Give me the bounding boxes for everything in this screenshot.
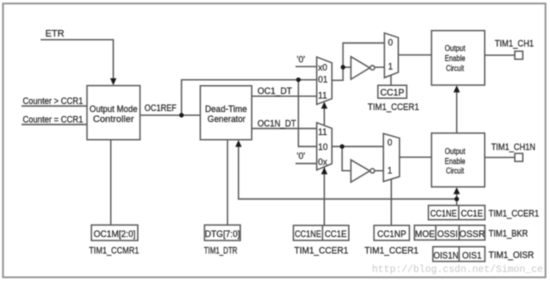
junction dot on 01 wire: [296, 78, 301, 83]
wire OC1REF: [140, 114, 200, 116]
svg-text:TIM1_CCER1: TIM1_CCER1: [365, 246, 419, 257]
wire CC1P mux output to OEC: [398, 54, 431, 56]
register CC1NE CC1E left box: [293, 225, 348, 240]
pin TIM1_CH1: [515, 51, 523, 59]
arrowhead select into lower mux: [321, 167, 327, 174]
wire Counter > CCR1: [22, 105, 88, 107]
arrowhead into top OEC: [453, 85, 460, 92]
arrowhead select into upper mux: [321, 102, 327, 109]
wire '0' stub lower mux: [296, 163, 317, 165]
svg-text:ETR: ETR: [45, 29, 64, 40]
svg-text:CC1P: CC1P: [380, 88, 404, 99]
wire DTG stem down to DTG register: [227, 140, 229, 225]
svg-text:OIS1: OIS1: [462, 250, 482, 261]
pin TIM1_CH1N: [515, 153, 523, 161]
wire select line CC1NE/CC1E to both muxes: [323, 104, 325, 225]
junction dot top NOT tap: [341, 65, 346, 70]
dead-time generator box: [200, 86, 251, 140]
svg-text:Enable: Enable: [445, 156, 466, 166]
register DTG box: [205, 225, 241, 241]
wire CC1NP mux output to bottom OEC: [400, 156, 432, 158]
wire ETR horizontal and vertical into OMC: [41, 40, 114, 81]
svg-text:OIS1N: OIS1N: [434, 250, 459, 261]
svg-text:'0': '0': [297, 151, 306, 161]
svg-text:CC1E: CC1E: [325, 229, 347, 240]
svg-text:1: 1: [388, 62, 393, 72]
svg-text:TIM1_BKR: TIM1_BKR: [489, 229, 529, 240]
arrowhead into bottom OEC: [453, 187, 460, 194]
wire bottom OEC select stem: [456, 193, 458, 206]
register CC1NP box: [374, 225, 409, 240]
svg-text:CC1E: CC1E: [461, 209, 483, 220]
svg-text:11: 11: [318, 127, 327, 137]
mux M1 (upper 3-input): [317, 57, 332, 104]
arrowhead ETR into OMC: [110, 78, 116, 85]
output mode controller box: [87, 86, 140, 140]
svg-text:CC1NP: CC1NP: [377, 229, 406, 240]
register MOE OSSI OSSR box: [414, 225, 485, 240]
svg-text:0: 0: [387, 137, 392, 147]
svg-text:0: 0: [388, 38, 393, 48]
svg-text:Controller: Controller: [93, 114, 134, 125]
svg-text:Enable: Enable: [445, 53, 466, 63]
svg-text:01: 01: [318, 74, 328, 84]
svg-text:TIM1_CCER1: TIM1_CCER1: [294, 246, 348, 257]
wire OMC stem down to OC1M: [110, 140, 112, 225]
svg-text:OSSI: OSSI: [437, 229, 458, 240]
junction dot on MOE line: [454, 197, 459, 202]
wire OC1N_DT: [252, 128, 317, 130]
svg-text:Circuit: Circuit: [446, 63, 465, 73]
svg-text:Circuit: Circuit: [446, 166, 465, 176]
wire lower mux output to 0 input of CC1NP mux: [332, 146, 384, 148]
wire tap to top NOT gate: [343, 66, 351, 68]
mux M2 (lower 3-input): [317, 123, 332, 170]
svg-text:TIM1_CCER1: TIM1_CCER1: [489, 209, 539, 220]
wire top NOT output to 1 input: [375, 66, 385, 68]
svg-text:TIM1_OISR: TIM1_OISR: [489, 250, 535, 261]
svg-text:OSSR: OSSR: [459, 229, 485, 240]
svg-text:DTG[7:0]: DTG[7:0]: [205, 229, 240, 240]
wire OEC select between OEC boxes: [456, 91, 458, 133]
wire OC1REF riser to 01 input: [182, 80, 317, 115]
wire branch from 01 down to 10 input: [298, 80, 316, 147]
svg-text:Counter > CCR1: Counter > CCR1: [23, 96, 83, 107]
svg-text:TIM1_CCER1: TIM1_CCER1: [368, 102, 419, 113]
wire CC1P stem: [390, 76, 392, 86]
wire upper mux output riser to 0 input of CC1P mux: [332, 43, 385, 80]
register OIS1N OIS1 box: [433, 247, 485, 262]
junction dot OC1REF: [179, 113, 184, 118]
svg-text:Output: Output: [445, 146, 466, 156]
junction dot bottom NOT tap: [340, 144, 345, 149]
wire long horizontal MOE line: [239, 145, 457, 199]
svg-text:http://blog.csdn.net/Simon_ce: http://blog.csdn.net/Simon_ce: [372, 264, 543, 276]
not gate bottom: [351, 160, 370, 182]
svg-text:OC1N_DT: OC1N_DT: [258, 119, 297, 130]
svg-text:10: 10: [318, 142, 328, 152]
wire OEC to TIM1_CH1 pin: [485, 54, 515, 56]
not gate top: [351, 57, 370, 80]
register CC1NE CC1E right box: [428, 205, 485, 219]
svg-text:MOE: MOE: [415, 229, 435, 240]
wire '0' stub upper mux: [296, 66, 317, 68]
register OC1M box: [91, 225, 137, 241]
svg-text:TIM1_CH1N: TIM1_CH1N: [491, 142, 535, 153]
svg-text:TIM1_DTR: TIM1_DTR: [204, 246, 237, 257]
output enable circuit bottom box: [432, 133, 485, 187]
output enable circuit top box: [432, 31, 485, 86]
svg-text:1: 1: [387, 165, 392, 175]
svg-text:CC1NE: CC1NE: [295, 229, 322, 240]
svg-text:TIM1_CCMR1: TIM1_CCMR1: [89, 246, 139, 257]
wire bottom OEC to TIM1_CH1N pin: [485, 156, 515, 158]
svg-text:CC1NE: CC1NE: [430, 209, 457, 220]
svg-text:OC1_DT: OC1_DT: [258, 86, 293, 97]
svg-text:OC1REF: OC1REF: [145, 103, 177, 114]
svg-text:Counter = CCR1: Counter = CCR1: [23, 114, 83, 125]
wire tap down to bottom NOT gate: [342, 147, 351, 171]
svg-text:0x: 0x: [318, 157, 328, 167]
svg-text:Generator: Generator: [208, 114, 246, 125]
svg-text:11: 11: [318, 91, 327, 101]
wire OC1_DT: [252, 95, 317, 97]
wire bottom NOT output to 1 input: [375, 170, 384, 172]
svg-text:Output: Output: [445, 43, 466, 53]
svg-text:x0: x0: [318, 63, 327, 73]
wire Counter = CCR1: [22, 124, 88, 126]
mux CC1P (top 2-input): [384, 33, 398, 78]
svg-text:TIM1_CH1: TIM1_CH1: [495, 38, 534, 49]
register CC1P box: [378, 85, 407, 98]
mux CC1NP (bottom 2-input): [383, 134, 399, 182]
svg-text:'0': '0': [297, 55, 306, 65]
arrowhead into DTG box: [235, 140, 241, 147]
svg-text:OC1M[2:0]: OC1M[2:0]: [94, 229, 136, 240]
wire CC1NP stem: [390, 179, 392, 225]
